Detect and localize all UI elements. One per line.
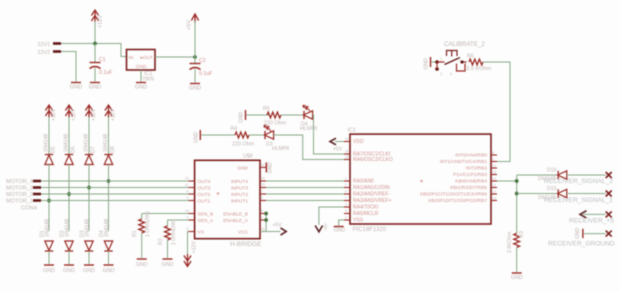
PIC left pin stubs and numbers [344, 141, 350, 143]
svg-text:9: 9 [492, 157, 494, 161]
svg-text:1 Ohm(3W): 1 Ohm(3W) [145, 211, 151, 237]
svg-text:+12V: +12V [51, 108, 57, 121]
pin RECEIVER_SIGNAL_1 [606, 191, 612, 197]
svg-text:R1: R1 [132, 230, 138, 237]
svg-text:INPUT3: INPUT3 [231, 186, 248, 192]
svg-text:11: 11 [185, 183, 189, 187]
pin 12V1 [53, 42, 61, 45]
svg-text:1: 1 [261, 216, 263, 220]
wire INPUT3 to RA1 [266, 187, 350, 189]
svg-text:D16: D16 [547, 167, 557, 173]
svg-text:SEN_B: SEN_B [198, 212, 214, 218]
svg-text:2: 2 [458, 58, 460, 62]
capacitor C2 0.1uF [190, 64, 201, 70]
wire VS to +12V [188, 232, 195, 257]
wire VSS to ground [339, 220, 344, 226]
diode D15 1N4148 [558, 189, 567, 197]
pin MOTOR_3 [33, 186, 41, 189]
wire RA4 to +5V (down) [319, 207, 344, 225]
wire diode D5 through motor lines [48, 165, 50, 232]
ground for regulator [136, 82, 146, 84]
svg-text:220 Ohm: 220 Ohm [232, 142, 255, 148]
svg-text:R5: R5 [263, 106, 270, 112]
pin RECEIVER_+5 [606, 211, 612, 217]
supply +12V column 3 [85, 105, 92, 118]
wire R2 to ground [167, 240, 169, 258]
svg-text:1N4148: 1N4148 [65, 219, 71, 237]
svg-text:ENABLE_A: ENABLE_A [223, 218, 249, 224]
wire ground to R4 [201, 134, 235, 136]
svg-text:RA2/AN2/VREF-: RA2/AN2/VREF- [353, 192, 391, 198]
svg-text:2: 2 [261, 196, 263, 200]
svg-text:MOTOR_3: MOTOR_3 [6, 186, 33, 192]
svg-text:12V1: 12V1 [37, 42, 50, 48]
svg-text:INT0/AN4/RB0: INT0/AN4/RB0 [455, 153, 487, 159]
junction column 1 [47, 199, 51, 203]
svg-text:6: 6 [187, 190, 189, 194]
svg-text:VSS: VSS [353, 218, 364, 224]
svg-text:16: 16 [261, 227, 265, 231]
ground for 12V2 [71, 82, 81, 84]
wire R5 to LED D4 [281, 114, 304, 116]
wire +12V to diode D5 [48, 117, 50, 154]
switch S1 CALIBRATE [435, 51, 466, 72]
svg-text:7805: 7805 [142, 77, 154, 83]
wire diode D1 to ground [48, 251, 50, 264]
svg-text:HLMP6: HLMP6 [272, 146, 289, 152]
svg-text:18: 18 [492, 170, 496, 174]
svg-text:RA1/AN1/LVDIN: RA1/AN1/LVDIN [353, 185, 390, 191]
svg-text:IN: IN [129, 55, 134, 61]
supply +12V column 4 [105, 105, 112, 118]
wire R3 to ground [516, 247, 518, 272]
supply +12V (top) [91, 10, 98, 23]
junction column 2 [67, 192, 71, 196]
svg-text:4: 4 [345, 209, 347, 213]
pin RECEIVER_GROUND [606, 231, 612, 237]
wire D15 to pin [567, 193, 606, 195]
svg-text:13: 13 [492, 196, 496, 200]
wire +12V to diode D6 [68, 117, 70, 154]
diode D7 1N4148 (flyback high) [85, 155, 93, 165]
svg-text:R2: R2 [158, 238, 164, 245]
resistor R6 3.9 KOhm [469, 59, 483, 65]
pin MOTOR_2 [33, 193, 41, 196]
svg-text:RA5/MCLR: RA5/MCLR [353, 211, 379, 217]
svg-text:3: 3 [440, 72, 442, 76]
wire +12V to diode D8 [108, 117, 110, 154]
svg-text:MOTOR_4: MOTOR_4 [6, 179, 33, 185]
svg-text:▸OUT: ▸OUT [140, 55, 153, 61]
ground (rotated) for switch [430, 57, 432, 67]
svg-text:0.1uF: 0.1uF [199, 71, 212, 77]
svg-text:GND: GND [189, 85, 201, 91]
svg-text:2: 2 [345, 183, 347, 187]
ground column 4 [104, 264, 114, 266]
ground column 2 [64, 264, 74, 266]
svg-text:RA3/AN3/VREF+: RA3/AN3/VREF+ [353, 198, 392, 204]
wire +5V symbol down [194, 21, 196, 57]
svg-text:12: 12 [261, 163, 265, 167]
svg-text:1N4148: 1N4148 [103, 134, 109, 152]
svg-text:GND: GND [83, 268, 95, 274]
wire diode D6 through motor lines [68, 165, 70, 232]
pin MOTOR_4 [33, 180, 41, 183]
wire diode D2 to ground [68, 251, 70, 264]
junction receiver node 1 [515, 179, 519, 183]
svg-text:RA6/OSC2/CLKO: RA6/OSC2/CLKO [353, 157, 393, 163]
svg-text:GND: GND [136, 262, 148, 268]
op-amp U$8 H-BRIDGE IC body [195, 160, 260, 238]
svg-text:VCC: VCC [238, 230, 249, 236]
svg-text:10: 10 [261, 183, 265, 187]
supply +12V (down, VS) [184, 254, 191, 267]
svg-text:0.1uF: 0.1uF [99, 70, 112, 76]
svg-text:C1: C1 [99, 57, 106, 63]
svg-text:GND: GND [43, 268, 55, 274]
svg-text:INT2/RB2: INT2/RB2 [466, 166, 487, 172]
svg-text:9: 9 [261, 209, 263, 213]
op-amp IC1 PIC18F1320 body [350, 134, 491, 224]
svg-text:GND: GND [424, 58, 430, 70]
svg-text:7: 7 [261, 190, 263, 194]
svg-text:11: 11 [492, 183, 496, 187]
wire LED D4 to PIC RA7 [313, 115, 350, 154]
ground (rotated) for LED chain 1 [245, 110, 247, 120]
wire SEN_A from R2 [168, 219, 195, 221]
supply +5V (left arrow, VDD) [330, 138, 336, 145]
svg-text:R4: R4 [231, 126, 238, 132]
ground for R1 [137, 258, 147, 260]
svg-text:+12V: +12V [91, 108, 97, 121]
wire INPUT1 to RA3 [266, 200, 350, 202]
PIC right pin stubs and numbers [491, 154, 497, 156]
svg-text:MOTOR_2: MOTOR_2 [6, 192, 33, 198]
wire PIC RB7 to receiver node [497, 180, 517, 182]
svg-text:GND: GND [334, 228, 346, 234]
svg-text:1N4148: 1N4148 [44, 134, 50, 152]
svg-text:6: 6 [345, 190, 347, 194]
svg-text:D8: D8 [110, 146, 116, 153]
svg-text:D5: D5 [51, 146, 57, 153]
wire SEN_B from R1 [142, 213, 195, 215]
wire +12V to diode D7 [88, 117, 90, 154]
svg-text:VS: VS [198, 230, 204, 236]
wire 12V2 to ground [61, 52, 76, 82]
svg-text:220 Ohm: 220 Ohm [264, 121, 287, 127]
svg-text:GND: GND [268, 162, 274, 174]
wire ENABLE_B ENABLE_A to VCC rail [265, 214, 267, 232]
wire regulator GND to ground [140, 70, 142, 82]
svg-text:GND: GND [511, 275, 523, 281]
svg-text:+5V: +5V [333, 147, 343, 153]
svg-text:8: 8 [492, 151, 494, 155]
svg-text:+12V: +12V [71, 108, 77, 121]
svg-text:RA0/AN0: RA0/AN0 [353, 179, 374, 185]
svg-text:1N4148: 1N4148 [64, 134, 70, 152]
svg-text:H-BRIDGE: H-BRIDGE [230, 241, 261, 248]
wire regulator OUT to +5V rail [155, 56, 195, 58]
svg-text:14: 14 [185, 177, 189, 181]
junction 12V rail [93, 42, 97, 46]
svg-text:INPUT1: INPUT1 [231, 199, 248, 205]
supply +5V (right arrow, VCC) [281, 228, 287, 235]
svg-text:+5V: +5V [323, 223, 328, 231]
junction ENABLE_A [264, 218, 268, 222]
svg-text:GND: GND [193, 132, 199, 144]
ground for R2 [163, 258, 173, 260]
svg-text:1 Ohm(3W): 1 Ohm(3W) [171, 219, 177, 245]
svg-text:3: 3 [345, 203, 347, 207]
LED D4 HLMP6 [303, 105, 313, 119]
svg-text:CALIBRATE_2: CALIBRATE_2 [444, 41, 485, 48]
wire RECEIVER_GROUND [584, 233, 606, 235]
svg-text:RECEIVER_SIGNAL_2: RECEIVER_SIGNAL_2 [544, 178, 613, 185]
wire D16 to pin [567, 174, 606, 176]
svg-text:GND: GND [63, 268, 75, 274]
svg-text:C2: C2 [199, 58, 206, 64]
svg-text:12: 12 [492, 190, 496, 194]
diode D5 1N4148 (flyback high) [45, 155, 53, 165]
svg-text:OUT2: OUT2 [198, 192, 211, 198]
voltage regulator IC1 7805 [127, 50, 156, 71]
svg-text:13: 13 [185, 209, 189, 213]
svg-text:RA4/T0CKI: RA4/T0CKI [353, 205, 378, 211]
svg-text:PIC18F1320: PIC18F1320 [353, 227, 387, 233]
svg-text:1N4148: 1N4148 [104, 219, 110, 237]
svg-text:KBI3/P1D/T1OSI/PGD/RB7: KBI3/P1D/T1OSI/PGD/RB7 [428, 198, 487, 204]
resistor R4 220 Ohm [235, 132, 249, 138]
svg-text:ENABLE_B: ENABLE_B [223, 212, 248, 218]
svg-text:GND: GND [89, 84, 101, 90]
supply +5V (down arrow, RA4) [315, 226, 322, 232]
wire INPUT2 to RA2 [266, 193, 350, 195]
wire diode D3 to ground [88, 251, 90, 264]
resistor R1 1 Ohm [139, 219, 145, 233]
H-bridge right pin stubs [260, 166, 266, 168]
wire LED D3 to PIC RA6 [274, 135, 350, 160]
junction ENABLE_B [264, 212, 268, 216]
svg-text:INPUT2: INPUT2 [231, 192, 248, 198]
wire VCC to +5V [260, 231, 281, 233]
svg-text:R6: R6 [467, 54, 474, 60]
svg-text:U$8: U$8 [243, 154, 253, 160]
wire ground to switch [432, 61, 438, 63]
svg-text:GND: GND [136, 64, 147, 70]
ground column 3 [84, 264, 94, 266]
junction receiver node 2 [515, 192, 519, 196]
ground (rotated) for LED chain 2 [199, 130, 201, 140]
svg-text:RECEIVER_+5: RECEIVER_+5 [569, 218, 614, 225]
ground (rotated) for H-bridge GND pin [265, 162, 267, 172]
svg-text:15: 15 [345, 155, 349, 159]
wire MOTOR_3 to H-bridge [41, 187, 195, 189]
wire from +12V symbol down to 12V rail [94, 21, 96, 44]
svg-text:RECEIVER_SIGNAL_1: RECEIVER_SIGNAL_1 [544, 197, 613, 204]
wire INPUT4 to RA0 [266, 180, 350, 182]
svg-text:GND: GND [575, 228, 581, 240]
svg-text:D7: D7 [91, 146, 97, 153]
wire to C2 [194, 57, 196, 63]
svg-text:+12V: +12V [192, 241, 198, 254]
diode D6 1N4148 (flyback high) [65, 155, 73, 165]
svg-text:16: 16 [345, 150, 349, 154]
svg-text:5: 5 [345, 216, 347, 220]
pin 12V2 [53, 50, 61, 53]
ground for C2 [190, 83, 200, 85]
svg-text:INPUT4: INPUT4 [231, 179, 248, 185]
LED D3 HLMP6 [264, 125, 274, 139]
svg-text:KBI1/RX/DT/RB5: KBI1/RX/DT/RB5 [450, 185, 487, 191]
svg-text:8: 8 [187, 227, 189, 231]
ground for VSS [334, 226, 344, 228]
resistor R2 1 Ohm [165, 226, 171, 240]
ground column 1 [44, 264, 54, 266]
svg-text:OUT1: OUT1 [198, 199, 211, 205]
wire receiver signal 2 [517, 174, 559, 176]
H-bridge left pin stubs [189, 180, 195, 182]
svg-text:INT1/AN5/TX/CK/RB1: INT1/AN5/TX/CK/RB1 [440, 159, 488, 165]
svg-text:+5V: +5V [273, 223, 283, 229]
pin RECEIVER_SIGNAL_2 [606, 172, 612, 178]
svg-text:10: 10 [492, 177, 496, 181]
svg-text:4: 4 [187, 216, 189, 220]
capacitor C1 0.1uF [90, 63, 101, 69]
supply RECEIVER_+5 (left arrow) [580, 211, 587, 218]
wire to C1 [94, 44, 96, 63]
wire receiver vertical bus [516, 175, 518, 234]
ground for C1 [90, 82, 100, 84]
svg-text:IC1: IC1 [348, 128, 356, 134]
junction column 3 [87, 186, 91, 190]
svg-text:GND: GND [135, 84, 147, 90]
svg-text:14: 14 [345, 137, 349, 141]
svg-text:GND: GND [162, 262, 174, 268]
svg-text:OUT4: OUT4 [198, 179, 211, 185]
wire C2 to ground [194, 69, 196, 83]
wire MOTOR_4 to H-bridge [41, 180, 195, 182]
svg-text:3.9KOhm: 3.9KOhm [507, 232, 513, 253]
svg-text:HLMP6: HLMP6 [300, 126, 317, 132]
wire R6 to PIC RB2 [483, 62, 510, 162]
svg-text:GND: GND [103, 268, 115, 274]
svg-text:12V2: 12V2 [37, 50, 50, 56]
resistor R3 3.9KOhm [514, 233, 520, 247]
svg-text:KBI0/AN6/RB4: KBI0/AN6/RB4 [455, 179, 487, 185]
svg-text:GND: GND [70, 84, 82, 90]
resistor R5 220 Ohm [267, 112, 281, 118]
svg-text:OUT3: OUT3 [198, 186, 211, 192]
wire MOTOR_1 to H-bridge [41, 200, 195, 202]
supply +12V column 2 [65, 105, 72, 118]
svg-text:MOTOR_1: MOTOR_1 [6, 199, 33, 205]
svg-text:CON4: CON4 [21, 206, 38, 212]
svg-text:D15: D15 [547, 186, 557, 192]
svg-text:3.9 KOhm: 3.9 KOhm [466, 66, 492, 72]
wire diode D7 through motor lines [88, 165, 90, 232]
wire receiver signal 1 [517, 193, 559, 195]
svg-text:+12V: +12V [98, 15, 104, 28]
wire R1 to ground [141, 233, 143, 258]
svg-text:1: 1 [440, 58, 442, 62]
svg-text:VDD: VDD [353, 139, 364, 145]
diode D16 1N4148 [558, 171, 567, 179]
supply +5V (top) [191, 14, 198, 23]
wire VDD to +5V [335, 141, 344, 143]
ground (rotated) RECEIVER_GROUND [582, 229, 584, 238]
svg-text:GND: GND [237, 166, 248, 172]
ground for R3 [512, 272, 522, 274]
svg-text:P1A/CCP1/RB3: P1A/CCP1/RB3 [453, 172, 487, 178]
wire R4 to LED D3 [249, 134, 265, 136]
pin MOTOR_1 [33, 199, 41, 202]
supply +12V column 1 [45, 105, 52, 118]
wire ground to R5 [247, 114, 270, 116]
svg-text:D6: D6 [71, 146, 77, 153]
svg-text:3: 3 [187, 196, 189, 200]
diode D8 1N4148 (flyback high) [104, 155, 112, 165]
junction column 4 [107, 179, 111, 183]
svg-text:R3: R3 [519, 231, 525, 238]
junction +5V rail [193, 55, 197, 59]
wire RECEIVER_+5 [583, 213, 606, 215]
svg-text:KBI2/P1C/T1OSO/T13CKI/RB6: KBI2/P1C/T1OSO/T13CKI/RB6 [420, 192, 487, 198]
wire C1 to ground [94, 68, 96, 82]
svg-text:1N4148: 1N4148 [45, 219, 51, 237]
svg-text:GND: GND [239, 112, 245, 124]
svg-text:+12V: +12V [111, 108, 117, 121]
svg-text:RECEIVER_GROUND: RECEIVER_GROUND [548, 240, 615, 247]
wire diode D4 to ground [108, 251, 110, 264]
svg-text:+5V: +5V [187, 20, 193, 30]
wire diode D8 through motor lines [108, 165, 110, 232]
svg-text:4: 4 [450, 72, 452, 76]
svg-text:1: 1 [345, 177, 347, 181]
svg-text:15: 15 [261, 177, 265, 181]
svg-text:17: 17 [492, 164, 496, 168]
svg-text:1N4148: 1N4148 [85, 219, 91, 237]
svg-text:1N4148: 1N4148 [84, 134, 90, 152]
wire MOTOR_2 to H-bridge [41, 193, 195, 195]
wire 12V rail to regulator IN [61, 44, 127, 57]
svg-text:SEN_A: SEN_A [198, 218, 215, 224]
svg-text:7: 7 [345, 196, 347, 200]
